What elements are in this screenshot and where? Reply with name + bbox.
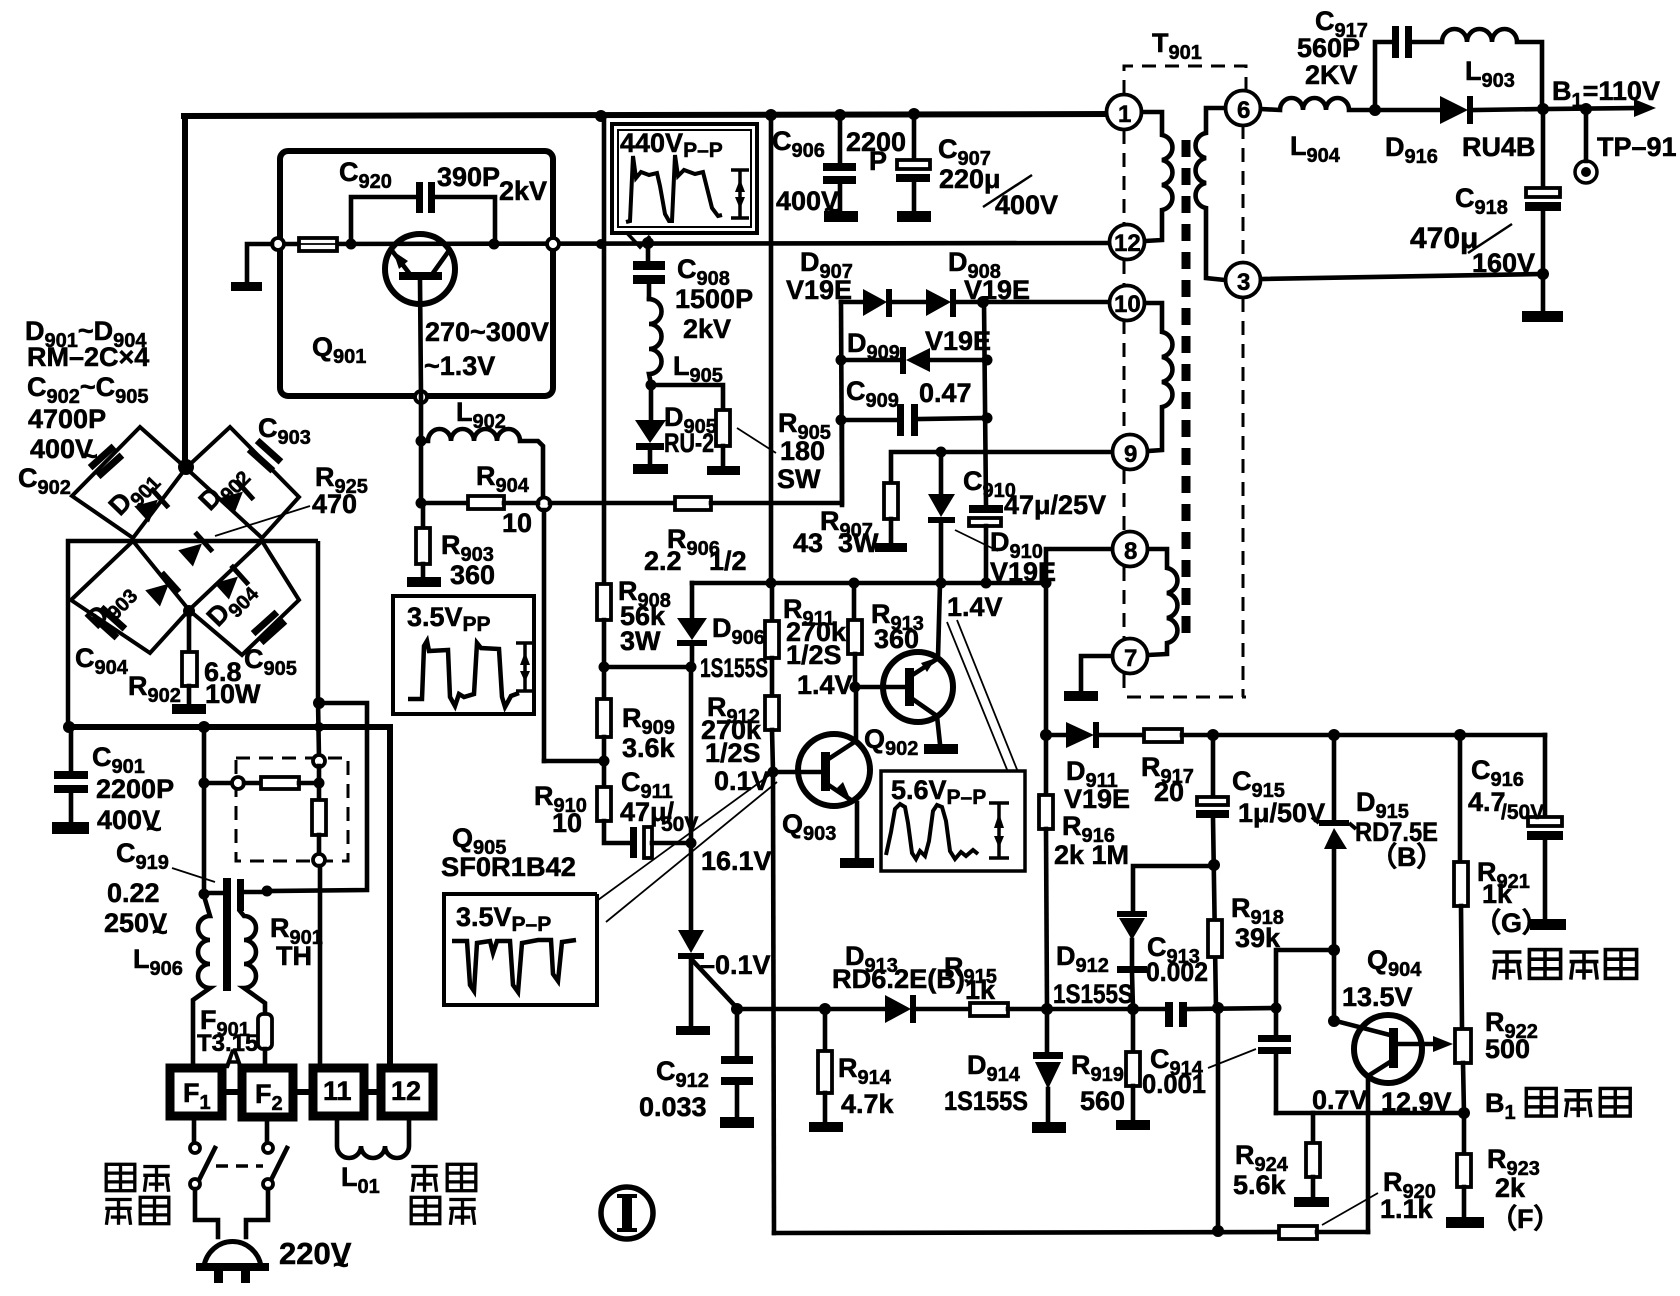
capacitor C914 series xyxy=(1165,1002,1173,1027)
svg-text:4.7k: 4.7k xyxy=(841,1089,895,1119)
svg-text:P: P xyxy=(869,146,887,176)
node: open circle relay top xyxy=(313,755,325,767)
resistor R917 xyxy=(1144,729,1182,742)
capacitor C906 xyxy=(838,115,843,163)
capacitor C903 symbol xyxy=(247,438,283,474)
pin 1 xyxy=(1107,95,1142,130)
capacitor C915 xyxy=(1211,735,1216,798)
diode D901 symbol xyxy=(133,487,170,524)
wire: stub to ground left of Q901 xyxy=(247,244,272,282)
svg-text:4700P: 4700P xyxy=(28,404,106,434)
svg-text:10W: 10W xyxy=(205,679,261,709)
label dianyuan power xyxy=(106,1164,135,1190)
node: open circle relay bottom xyxy=(313,854,325,866)
440V bubble box xyxy=(612,124,757,233)
svg-text:5.6k: 5.6k xyxy=(1233,1170,1287,1200)
svg-text:TP–91: TP–91 xyxy=(1597,132,1677,162)
diode D911 xyxy=(1066,722,1094,748)
svg-text:RM–2C×4: RM–2C×4 xyxy=(27,342,149,372)
pin 12 xyxy=(1110,225,1145,260)
branch to D912/C913 xyxy=(1133,866,1214,911)
bridge diamond D902 xyxy=(186,427,299,538)
diode D906 xyxy=(677,618,707,640)
wire: B1 output with arrow xyxy=(1543,108,1643,109)
svg-text:560P: 560P xyxy=(1297,33,1360,63)
svg-text:16.1V: 16.1V xyxy=(701,846,772,876)
svg-text:11: 11 xyxy=(323,1076,352,1106)
ground C918 xyxy=(1522,311,1563,322)
capacitor C911 xyxy=(630,827,637,858)
pointer lines to 5.6V bubble xyxy=(947,622,1008,772)
mains plug xyxy=(204,1242,261,1266)
ground R903 xyxy=(407,577,441,587)
resistor R915 xyxy=(970,1003,1008,1016)
svg-text:12: 12 xyxy=(1114,230,1141,257)
wire: Q904 collector node xyxy=(1332,950,1337,1021)
inductor L902 xyxy=(421,429,543,498)
wire: C920 right lead xyxy=(435,197,495,240)
svg-text:3W: 3W xyxy=(620,626,661,656)
capacitor C908 xyxy=(646,243,651,262)
svg-text:~: ~ xyxy=(333,1250,349,1280)
svg-text:3.6k: 3.6k xyxy=(622,733,676,763)
svg-text:（B）: （B） xyxy=(1370,842,1444,872)
pointer lines from 3.5V box to Q903 base xyxy=(598,774,771,900)
diode D902 symbol xyxy=(218,479,255,516)
winding 10-9 xyxy=(1145,303,1172,451)
svg-text:~1.3V: ~1.3V xyxy=(424,351,495,381)
ground R924 xyxy=(1294,1197,1329,1207)
svg-text:~: ~ xyxy=(82,441,98,471)
resistor R903 xyxy=(421,506,426,528)
wire: R909 bottom to feedback vertical xyxy=(544,759,604,764)
resistor R918 xyxy=(1208,920,1222,957)
zener D915 xyxy=(1332,735,1337,822)
svg-text:~: ~ xyxy=(152,917,168,947)
svg-text:1/2: 1/2 xyxy=(709,546,747,576)
label xiaoci degauss xyxy=(411,1167,437,1192)
fuse/jumper on base line xyxy=(299,238,337,251)
svg-text:1/2S: 1/2S xyxy=(705,738,761,768)
resistor R911 xyxy=(765,621,779,658)
degauss relay dashed box xyxy=(236,758,348,861)
resistor R905 xyxy=(651,385,723,410)
capacitor C916 xyxy=(1543,735,1548,818)
wire: diagonal to C912 node xyxy=(693,961,737,1008)
resistor R904 xyxy=(468,496,504,509)
svg-text:V19E: V19E xyxy=(964,275,1030,305)
snubber C917 + L903 xyxy=(1375,42,1393,110)
ground R923 xyxy=(1446,1217,1484,1228)
resistor posistor vertical xyxy=(312,800,326,835)
ground pin7 xyxy=(1064,691,1098,701)
node: open circle left of base line xyxy=(272,238,284,250)
wire: D908 junction down through C910 xyxy=(984,302,986,505)
label xianquan coil xyxy=(411,1197,440,1223)
svg-text:12.9V: 12.9V xyxy=(1381,1087,1452,1117)
diode D916 xyxy=(1375,108,1440,113)
diode D913 xyxy=(885,995,911,1023)
diode D905 xyxy=(649,385,654,420)
capacitor C901 xyxy=(69,727,74,772)
terminal box F1 xyxy=(170,1068,222,1116)
winding 8-7 xyxy=(1148,549,1177,655)
inductor L906 right winding xyxy=(240,911,265,1014)
transistor Q904 xyxy=(1336,1015,1453,1083)
capacitor C919 xyxy=(223,878,231,991)
diode D914 xyxy=(1045,1009,1050,1053)
svg-text:10: 10 xyxy=(552,808,582,838)
svg-text:400V: 400V xyxy=(995,190,1058,220)
wire: pin8 feed down control rail xyxy=(1046,549,1112,795)
svg-text:~: ~ xyxy=(824,195,840,225)
svg-text:1k: 1k xyxy=(1482,879,1513,909)
svg-text:1S155S: 1S155S xyxy=(700,653,768,683)
measure arrow 440V xyxy=(731,170,749,218)
winding secondary 6-3 xyxy=(1196,108,1225,280)
capacitor C907 electrolytic xyxy=(912,114,917,161)
pin 6 xyxy=(1226,91,1261,126)
svg-text:1μ/50V: 1μ/50V xyxy=(1238,798,1325,828)
pin 8 xyxy=(1113,532,1148,567)
inductor L906 left winding xyxy=(193,896,210,1068)
resistor R912 xyxy=(765,696,779,730)
label D902 xyxy=(193,457,256,520)
svg-text:47μ/25V: 47μ/25V xyxy=(1004,490,1106,520)
svg-text:6: 6 xyxy=(1237,97,1250,124)
wire: feedback row to C914 branch xyxy=(1276,950,1334,1035)
svg-text:0.22: 0.22 xyxy=(107,878,160,908)
svg-text:2k 1M: 2k 1M xyxy=(1054,840,1129,870)
node: open circle emitter exits box xyxy=(415,391,427,403)
switch pole 1 xyxy=(192,1116,197,1142)
wire: pin9 row xyxy=(891,452,1112,483)
capacitor C904 symbol xyxy=(91,605,127,641)
label wucha fangda error amp xyxy=(1493,952,1522,980)
svg-text:1: 1 xyxy=(1118,101,1131,128)
waveform box 3.5Vp-p second xyxy=(444,894,597,1005)
svg-text:V19E: V19E xyxy=(925,326,991,356)
resistor R907 xyxy=(884,483,898,519)
resistor R916 xyxy=(1039,795,1053,829)
switch coupling dashes xyxy=(216,1164,263,1168)
resistor R914 xyxy=(823,1009,828,1051)
measure arrow xyxy=(516,643,534,691)
diode D909 xyxy=(841,358,901,363)
label D901 xyxy=(103,462,166,525)
wire: box links xyxy=(222,1089,242,1095)
svg-text:500: 500 xyxy=(1485,1034,1530,1064)
pin 10 xyxy=(1110,286,1145,321)
ground R919 xyxy=(1116,1120,1150,1130)
svg-text:560: 560 xyxy=(1080,1086,1125,1116)
svg-text:1S155S: 1S155S xyxy=(944,1086,1028,1116)
wire: Q901 base line to pin 12 xyxy=(283,243,1109,244)
svg-text:2kV: 2kV xyxy=(499,176,547,206)
svg-text:0.47: 0.47 xyxy=(919,378,972,408)
resistor R910 xyxy=(602,761,607,787)
wire: D906 to C911 junction xyxy=(689,667,694,843)
wire: pin7 to ground xyxy=(1081,656,1112,691)
svg-text:1/2S: 1/2S xyxy=(786,640,842,670)
bubble tail xyxy=(627,233,650,247)
wire: row from R904 junction to R906 xyxy=(550,501,675,506)
svg-text:RU-2: RU-2 xyxy=(664,428,714,458)
resistor relay coil xyxy=(261,777,299,789)
node: open circle on box right edge xyxy=(547,238,559,250)
svg-text:V19E: V19E xyxy=(1064,784,1130,814)
svg-text:3: 3 xyxy=(1237,269,1250,296)
waveform trace dips xyxy=(452,940,576,992)
wire: branch right to C919 right plate xyxy=(267,703,367,891)
capacitor C905 symbol xyxy=(251,610,287,646)
degauss coil L01 xyxy=(337,1116,409,1158)
svg-text:1k: 1k xyxy=(965,975,996,1005)
svg-text:0.002: 0.002 xyxy=(1146,957,1208,987)
svg-text:0.033: 0.033 xyxy=(639,1092,707,1122)
inductor L905 xyxy=(649,299,662,384)
ground xyxy=(231,282,262,291)
node: bridge bottom xyxy=(183,605,195,617)
svg-text:10: 10 xyxy=(1114,291,1141,318)
wire: relay to terminal 11 xyxy=(318,866,323,1068)
fuse F901 xyxy=(258,1014,272,1049)
svg-text:SW: SW xyxy=(777,464,821,494)
diode D910 xyxy=(939,452,944,494)
ground R902 xyxy=(172,704,206,714)
svg-text:2200P: 2200P xyxy=(96,774,174,804)
wire: top 300V rail from left loop to transformer pin 1 xyxy=(184,114,1107,116)
svg-text:13.5V: 13.5V xyxy=(1342,982,1413,1012)
ground D914 xyxy=(1032,1122,1066,1133)
diode D904 symbol xyxy=(213,564,250,601)
diode below C911 xyxy=(678,930,704,953)
waveform trace 5.6V xyxy=(886,804,978,859)
wire: R906 to corner joining D907 branch xyxy=(711,420,842,503)
diode middle symbol xyxy=(177,531,214,568)
ground R907 xyxy=(875,543,907,552)
transistor Q901 xyxy=(385,234,455,394)
svg-text:0.7V: 0.7V xyxy=(1312,1085,1368,1115)
svg-text:SF0R1B42: SF0R1B42 xyxy=(441,852,576,882)
wire: bridge box right edge down to relay xyxy=(318,701,319,758)
diode row D907 D908 xyxy=(841,300,863,305)
bridge diamond D903 xyxy=(71,541,189,653)
node: open circle relay row xyxy=(232,777,244,789)
svg-text:0.001: 0.001 xyxy=(1142,1069,1206,1099)
pin 3 xyxy=(1226,263,1261,298)
terminal box F2 xyxy=(242,1068,293,1117)
svg-text:/50V: /50V xyxy=(1501,801,1544,824)
wire: left vertical loop down to bridge top node xyxy=(182,116,188,467)
resistor R909 xyxy=(602,667,607,699)
wire: C920 left lead xyxy=(351,197,416,240)
ground Q902 emitter xyxy=(924,744,958,754)
measure arrow 5.6V xyxy=(989,803,1009,858)
wire: vertical from rail to R908 xyxy=(602,116,607,584)
resistor R906 xyxy=(675,497,711,510)
svg-text:–0.1V: –0.1V xyxy=(700,950,771,980)
resistor R923 xyxy=(1462,1113,1467,1154)
wire: pin3 return row xyxy=(1261,274,1543,279)
capacitor C918 electrolytic xyxy=(1541,109,1546,189)
node: open circle junction R904 xyxy=(538,498,551,511)
capacitor feedback xyxy=(1258,1035,1291,1042)
wire: R904 row xyxy=(421,501,468,506)
svg-text:2kV: 2kV xyxy=(683,314,731,344)
label kaiguan switch xyxy=(105,1200,131,1225)
svg-text:TH: TH xyxy=(276,941,312,971)
diode D912 xyxy=(1117,911,1147,917)
transformer T901 dashed outline xyxy=(1124,66,1246,697)
svg-text:470μ: 470μ xyxy=(1410,222,1478,255)
capacitor C902 symbol xyxy=(88,444,124,480)
svg-text:4.7: 4.7 xyxy=(1468,787,1506,817)
ground C916 xyxy=(1530,919,1566,930)
wire: emitter node to L902 xyxy=(419,394,424,506)
node: R904 left junction xyxy=(416,498,427,509)
pin 7 xyxy=(1113,639,1148,674)
svg-text:1.4V: 1.4V xyxy=(797,670,853,700)
svg-text:1.4V: 1.4V xyxy=(947,592,1003,622)
oscillator block box Q901 xyxy=(280,151,553,396)
svg-text:2KV: 2KV xyxy=(1305,60,1358,90)
wire: R908 to D906 row xyxy=(604,665,691,670)
capacitor C920 xyxy=(416,182,423,213)
svg-text:3W: 3W xyxy=(838,528,879,558)
wire: relay vertical xyxy=(317,766,322,800)
box around lower bridge xyxy=(68,541,318,725)
node: rail junctions xyxy=(595,110,607,122)
wire: bottom bus xyxy=(774,1232,1279,1233)
svg-text:360: 360 xyxy=(450,560,495,590)
wire: D906 branch from B+ row xyxy=(690,583,695,618)
svg-text:2.2: 2.2 xyxy=(644,546,682,576)
svg-text:43: 43 xyxy=(793,528,823,558)
potentiometer R922 xyxy=(1455,1029,1471,1063)
ground xyxy=(676,1026,710,1035)
wire: mains bus under bridge xyxy=(68,727,390,1068)
svg-text:7: 7 xyxy=(1124,645,1137,672)
wire: emitter row y1113 xyxy=(1276,1111,1464,1116)
winding primary 1-12 xyxy=(1142,112,1172,241)
pin 9 xyxy=(1113,435,1148,470)
capacitor C912 xyxy=(735,1009,740,1056)
svg-text:8: 8 xyxy=(1124,538,1137,565)
svg-text:220μ: 220μ xyxy=(939,164,1001,194)
resistor R902 xyxy=(187,611,192,652)
svg-text:1S155S: 1S155S xyxy=(1053,979,1133,1009)
resistor R920 xyxy=(1279,1226,1317,1239)
switch pole 2 xyxy=(265,1117,270,1142)
low-voltage row y1009 xyxy=(737,1007,885,1012)
resistor R913 xyxy=(852,583,857,620)
error amp supply row y735 xyxy=(1046,733,1066,738)
capacitor C909 xyxy=(841,418,898,423)
waveform box 5.6Vp-p xyxy=(881,771,1025,871)
bridge diamond D901 xyxy=(72,427,186,538)
wire: C914 node down to bus xyxy=(1216,1008,1221,1231)
test point TP-91 xyxy=(1584,109,1589,161)
waveform trace square xyxy=(408,641,519,707)
svg-text:12: 12 xyxy=(391,1076,421,1106)
svg-text:2k: 2k xyxy=(1495,1173,1526,1203)
ground D905 xyxy=(633,464,668,474)
svg-text:390P: 390P xyxy=(437,162,500,192)
svg-text:180: 180 xyxy=(780,436,825,466)
resistor R908 xyxy=(597,584,611,620)
node: bridge top xyxy=(178,459,194,475)
svg-text:9: 9 xyxy=(1124,441,1137,468)
terminal box 12 xyxy=(381,1068,433,1116)
bridge diamond D904 xyxy=(189,541,299,655)
svg-text:20: 20 xyxy=(1154,777,1184,807)
resistor R919 xyxy=(1131,1009,1136,1052)
wire: relay coil row xyxy=(204,781,232,786)
diode D903 symbol xyxy=(144,571,181,608)
svg-text:~: ~ xyxy=(146,814,162,844)
svg-text:270~300V: 270~300V xyxy=(425,317,549,347)
terminal box 11 xyxy=(313,1068,364,1116)
waveform box 3.5Vpp first xyxy=(393,596,534,714)
wire: Q904 emitter down to bus xyxy=(1366,1076,1371,1232)
svg-text:470: 470 xyxy=(312,489,357,519)
wire: B+ 16V row xyxy=(692,581,1046,586)
wire: C911 junction down to D912 xyxy=(689,843,694,930)
wire: diode to ground xyxy=(689,959,694,1026)
ground R914 xyxy=(809,1122,843,1132)
resistor R924 xyxy=(1311,1113,1316,1143)
svg-text:1500P: 1500P xyxy=(675,284,753,314)
wire: vertical R911 chain from top rail xyxy=(769,115,774,583)
wire: Q903 base chain down to bottom bus xyxy=(773,772,774,1233)
wire: R921/R922 chain xyxy=(1458,735,1463,862)
svg-text:（F）: （F） xyxy=(1490,1204,1561,1234)
resistor R921 xyxy=(1454,862,1468,906)
svg-text:RU4B: RU4B xyxy=(1462,132,1536,162)
output snubber row: L904 xyxy=(1261,98,1375,110)
wire: left return vertical xyxy=(841,302,842,505)
transformer core heavy dashes xyxy=(1182,140,1191,637)
transistor Q902 xyxy=(855,583,953,744)
capacitor C910 electrolytic xyxy=(969,505,1003,513)
ground R905 xyxy=(707,466,740,475)
transistor Q903 xyxy=(779,690,870,858)
node: base line junctions xyxy=(346,239,357,250)
svg-text:10: 10 xyxy=(502,508,532,538)
label D903 xyxy=(80,575,143,638)
circled I mark xyxy=(601,1187,653,1239)
ground Q903 emitter xyxy=(840,858,874,868)
waveform trace 440V xyxy=(626,155,722,222)
label D904 xyxy=(201,573,264,637)
wire: live feed down to C919 xyxy=(202,727,207,895)
svg-text:1.1k: 1.1k xyxy=(1380,1194,1434,1224)
